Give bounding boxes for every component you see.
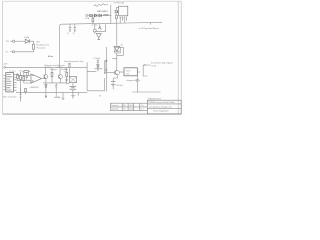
svg-text:r1.1: r1.1 [141,108,144,111]
resistor R11 [69,63,71,67]
resistor R14 [25,88,27,94]
capacitor C6 [97,59,99,65]
svg-text:Charging: Charging [50,68,57,71]
enclosure box [87,62,105,90]
wire T2 drop [69,67,73,86]
label J1 pins [6,41,10,54]
transistor Q5 [59,75,63,83]
current arrow [54,92,60,98]
capacitor C8 [55,83,57,92]
svg-text:10-04: 10-04 [129,109,133,111]
wire R1 to J1 bottom [15,49,34,52]
note text charge indicator [36,41,49,49]
transistor Q4 [44,75,48,83]
transistor Q3 [115,70,120,75]
label K1 [126,70,130,75]
IC U1 box [6,73,14,92]
ground funnel [96,34,101,40]
arrowhead sense [104,72,106,74]
wire riser to chain [110,5,112,24]
capacitor C10 [105,69,107,70]
svg-text:12V Batt: 12V Batt [116,84,123,87]
svg-text:BR1 2W10: BR1 2W10 [97,11,108,13]
svg-text:Switching-mode Chgr: Switching-mode Chgr [64,60,83,63]
svg-text:LM358-B1: LM358-B1 [30,87,39,89]
junction node A [110,15,111,16]
label C1 C2 [67,33,74,35]
svg-text:U2 VIPer22A: U2 VIPer22A [113,1,124,4]
svg-text:4.7k 1W: 4.7k 1W [93,58,100,60]
U2 pins [120,17,127,24]
svg-text:Battery Level Sensing: Battery Level Sensing [44,64,65,67]
wire relay output [137,72,140,92]
capacitor C1 [69,24,71,31]
diode D6 [97,65,99,69]
svg-text:to J2 Regulated Board: to J2 Regulated Board [139,27,159,30]
terminal chain left [86,15,88,17]
wire D1 to R1 node [29,41,33,44]
svg-text:r1.0: r1.0 [141,104,144,107]
wire node C tick [94,69,102,72]
title block [110,100,181,114]
terminal charger rail [4,67,6,69]
svg-text:PTB5633-B Rev2: PTB5633-B Rev2 [148,99,161,101]
capacitor C9 [105,60,107,61]
wire mid link [43,82,67,84]
stub right [77,92,79,95]
transistor Q1 [98,24,101,29]
svg-text:Main Controller: Main Controller [3,96,17,99]
border frame [3,1,182,114]
battery tap [71,91,74,99]
wire regulator drop [116,23,118,46]
wire bus to Q3 [106,72,115,74]
capacitor C11 [66,77,70,83]
resistor R2 [92,16,94,24]
svg-text:Precaution: Precaution [36,47,45,50]
vertical left col [20,88,22,102]
resistor R3 [116,13,118,23]
junction lower [72,90,73,91]
wire charger rail [5,66,87,68]
resistor R4 [17,73,19,80]
wire output tick [150,23,152,25]
wire J1 top to D1 [15,40,26,42]
wire +V rail top [60,22,163,67]
resistor R10 [66,72,68,83]
svg-text:12v Battery Charger Ckt: 12v Battery Charger Ckt [149,105,172,108]
label handwritten note [94,4,108,7]
U1 pin labels [7,75,12,90]
relay K1 box [124,68,137,76]
svg-text:Checked: Checked [111,109,118,111]
svg-text:the batteries fully chgd off: the batteries fully chgd off [151,62,173,65]
inductor L1 [103,14,108,17]
svg-text:D-Link: D-Link [48,56,53,58]
arrowhead leader [143,64,145,65]
svg-text:cut off: cut off [151,65,157,68]
fuse F1 [89,15,92,17]
capacitor C5 [136,80,139,84]
svg-text:10-02: 10-02 [129,105,133,107]
resistor R7 feedback [22,71,30,73]
title block part number [148,99,161,101]
resistor R6 [23,72,25,83]
svg-text:C1: C1 [67,33,69,35]
ground bar G2 [62,92,65,99]
connector J1 [10,40,14,53]
junction node C [97,69,98,70]
ground arrow G1 [45,92,47,98]
wire Q3 to relay [120,71,124,73]
junction node B [105,30,106,31]
battery BT1 [111,82,115,86]
title block text [111,101,175,113]
wire input chain [88,15,111,17]
svg-text:LED: LED [36,41,40,43]
svg-text:Drawn by: Drawn by [111,104,118,107]
resistor R1 [33,44,35,49]
wire emitter bus [95,24,106,31]
svg-text:RLY1: RLY1 [126,70,130,72]
note text overcharge [151,62,173,68]
wire note leader [142,65,150,76]
LED LD1 [93,24,96,33]
wire gate branch [117,47,124,55]
diode D4 [115,8,119,13]
svg-text:x2: x2 [64,69,66,71]
wire opamp input top [17,73,31,83]
wire charger ground rail [16,91,87,93]
svg-text:Rectifying to 12: Rectifying to 12 [36,44,49,47]
battery sym lower [70,86,77,89]
svg-text:Power Supply Brd: Power Supply Brd [153,110,168,113]
bus wire [105,47,107,92]
SCR Q2 [114,46,121,57]
capacitor C7 [26,72,28,80]
diode D1 [25,37,29,43]
wire battery riser [112,78,114,89]
wire sense column [104,60,106,73]
wire opamp out [42,78,45,80]
wire Q3 emitter to battery [113,75,117,78]
resistor R9 [51,72,53,83]
svg-text:x4: x4 [64,71,66,73]
diode D7 [45,83,47,92]
U1 pins right [14,75,17,91]
resistor R5 [20,72,22,94]
svg-text:+12V: +12V [3,63,8,65]
label pin row [9,71,22,74]
capacitor C2 [74,24,76,31]
diode D2 [94,14,97,17]
U1 pins left [3,76,5,90]
label mode text [50,68,68,71]
label T2 col [64,69,66,73]
diode D3 [99,14,102,17]
svg-text:C2: C2 [73,33,75,35]
wire bottom right link [132,91,160,93]
svg-text:P78B40 Universal Switch Mode: P78B40 Universal Switch Mode [148,101,174,104]
wire drop to relay stage [112,57,116,70]
transformer T2 box [69,77,76,83]
svg-text:+: + [75,95,76,97]
wire col drops [45,67,66,74]
IC U2 box [119,6,128,16]
svg-text:Q2: Q2 [121,44,123,46]
op-amp U3 [31,74,42,83]
